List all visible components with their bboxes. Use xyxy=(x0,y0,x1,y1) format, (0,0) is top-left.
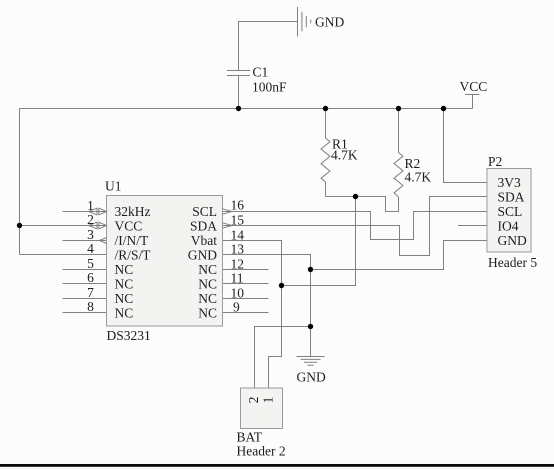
svg-text:14: 14 xyxy=(231,228,245,243)
wire C1 bottom to bus xyxy=(238,76,240,109)
svg-text:GND: GND xyxy=(498,233,527,248)
svg-text:5: 5 xyxy=(87,256,94,271)
pin numbers left xyxy=(87,198,94,314)
junction dot R1 bottom xyxy=(353,194,358,199)
svg-text:Header 5: Header 5 xyxy=(488,255,537,270)
wire VCC stub xyxy=(472,95,474,109)
resistor R2 xyxy=(394,109,403,198)
wire U1 pin10 stub xyxy=(223,298,269,300)
wire Vbat net: U1 pin14 to BAT pin1 xyxy=(223,241,282,389)
ground symbol top (rotated) xyxy=(298,7,311,37)
connector BAT body xyxy=(241,388,283,429)
svg-text:VCC: VCC xyxy=(460,79,488,94)
svg-text:NC: NC xyxy=(198,306,217,321)
junction dot R2/bus xyxy=(396,106,401,111)
svg-text:SCL: SCL xyxy=(192,204,217,219)
svg-text:7: 7 xyxy=(87,285,94,300)
P2 pin names xyxy=(498,175,527,248)
wire SDA net: U1 pin15 to P2 SDA with detour xyxy=(223,197,488,256)
svg-text:NC: NC xyxy=(115,291,134,306)
svg-text:BAT: BAT xyxy=(237,430,263,445)
junction dot C1/bus xyxy=(236,106,241,111)
wire IO4 stub xyxy=(458,225,487,227)
svg-text:/I/N/T: /I/N/T xyxy=(115,233,149,248)
wire Vbat branch to R1/R2 bottoms xyxy=(282,197,356,286)
wire 3V3: bus to P2 xyxy=(444,109,488,183)
pin 16 output symbol xyxy=(223,209,233,214)
svg-text:NC: NC xyxy=(115,277,134,292)
svg-text:DS3231: DS3231 xyxy=(107,328,151,343)
svg-text:2: 2 xyxy=(246,397,261,404)
junction dot GND/P2 branch xyxy=(308,267,313,272)
svg-text:GND: GND xyxy=(315,15,344,30)
pin 2 I/O symbol xyxy=(89,222,107,229)
svg-text:13: 13 xyxy=(231,242,245,257)
U1 right pin names xyxy=(188,204,217,321)
junction dot 3V3/bus xyxy=(441,106,446,111)
wire U1 pin12 stub xyxy=(223,269,269,271)
wire GND branch to P2 GND xyxy=(311,241,488,270)
junction dot GND/BAT branch xyxy=(308,324,313,329)
wire U1 pin2 VCC xyxy=(20,225,107,227)
wire C1 top to ground xyxy=(239,22,298,71)
svg-text:2: 2 xyxy=(87,212,94,227)
svg-text:3: 3 xyxy=(87,227,94,242)
svg-text:Vbat: Vbat xyxy=(191,233,217,248)
wire U1 pin11 stub xyxy=(223,283,269,285)
svg-text:SDA: SDA xyxy=(190,219,217,234)
svg-text:4.7K: 4.7K xyxy=(331,147,358,162)
svg-text:NC: NC xyxy=(115,306,134,321)
pin numbers right xyxy=(231,198,245,315)
connector P2 body xyxy=(487,169,531,253)
svg-text:GND: GND xyxy=(188,248,217,263)
svg-text:12: 12 xyxy=(231,257,245,272)
IC U1 body xyxy=(107,196,223,327)
junction dot Vbat branch xyxy=(279,283,284,288)
wire GND net: U1 pin13 down to ground xyxy=(223,255,311,357)
ground symbol bottom xyxy=(297,357,325,366)
svg-text:4.7K: 4.7K xyxy=(405,170,432,185)
resistor R1 xyxy=(321,109,330,197)
pin 1 I/O symbol xyxy=(89,208,107,215)
svg-text:SCL: SCL xyxy=(498,204,523,219)
svg-text:1: 1 xyxy=(261,397,276,404)
sheet border bottom bar xyxy=(0,464,554,467)
svg-text:6: 6 xyxy=(87,270,94,285)
pin 15 output symbol xyxy=(223,223,233,228)
U1 left pin names xyxy=(115,204,152,321)
svg-text:8: 8 xyxy=(87,299,94,314)
svg-text:VCC: VCC xyxy=(115,219,143,234)
svg-text:Header 2: Header 2 xyxy=(237,444,286,459)
svg-text:100nF: 100nF xyxy=(252,80,287,95)
svg-text:IO4: IO4 xyxy=(498,219,519,234)
wire U1 pin1 stub xyxy=(63,211,107,213)
svg-text:P2: P2 xyxy=(488,154,502,169)
wire SCL net: U1 pin16 to P2 SCL with detour xyxy=(223,212,488,240)
svg-text:15: 15 xyxy=(231,213,245,228)
svg-text:4: 4 xyxy=(87,241,94,256)
svg-text:32kHz: 32kHz xyxy=(115,204,151,219)
wire U1 pin3 stub xyxy=(63,240,107,242)
svg-text:C1: C1 xyxy=(253,65,269,80)
pin 3 input symbol xyxy=(99,238,106,244)
wire U1 pin8 stub xyxy=(63,312,107,314)
capacitor C1 plates xyxy=(227,71,250,76)
wire U1 pin5 stub xyxy=(63,269,107,271)
wire U1 pin4 /R/S/T xyxy=(20,254,107,256)
wire U1 pin6 stub xyxy=(63,283,107,285)
svg-text:NC: NC xyxy=(198,291,217,306)
svg-text:16: 16 xyxy=(231,198,245,213)
svg-text:NC: NC xyxy=(115,262,134,277)
junction dot R1/bus xyxy=(323,106,328,111)
svg-text:10: 10 xyxy=(231,286,245,301)
wire left VCC branch vertical xyxy=(19,109,21,255)
wire GND branch to BAT pin2 xyxy=(255,327,311,389)
svg-text:SDA: SDA xyxy=(498,190,525,205)
svg-text:U1: U1 xyxy=(105,179,122,194)
power port VCC bar xyxy=(465,94,480,96)
wire U1 pin7 stub xyxy=(63,298,107,300)
svg-text:/R/S/T: /R/S/T xyxy=(115,248,152,263)
wire U1 pin9 stub xyxy=(223,312,269,314)
junction dot VCC left branch xyxy=(17,223,22,228)
svg-text:NC: NC xyxy=(198,277,217,292)
svg-text:9: 9 xyxy=(233,300,240,315)
svg-text:11: 11 xyxy=(231,271,244,286)
svg-text:NC: NC xyxy=(198,262,217,277)
svg-text:3V3: 3V3 xyxy=(498,175,521,190)
svg-text:GND: GND xyxy=(297,370,326,385)
wire R1 bottom jog to R2 xyxy=(326,197,399,212)
wire VCC bus xyxy=(20,108,473,110)
svg-text:1: 1 xyxy=(87,198,94,213)
